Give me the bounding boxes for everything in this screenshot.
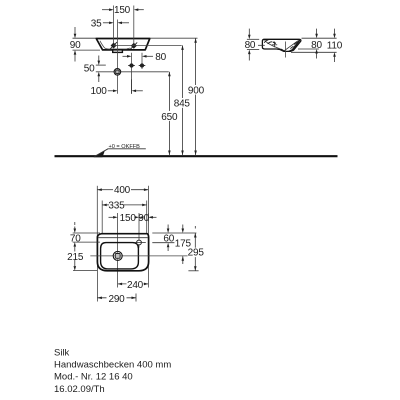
- dimension 215: [67, 247, 84, 271]
- svg-text:290: 290: [108, 294, 125, 305]
- side view: drain dark slopes: [280, 49, 286, 52]
- side view: centerline: [285, 42, 287, 58]
- svg-text:240: 240: [127, 280, 144, 291]
- dimension 90 left: [73, 27, 101, 62]
- side view: outline: [262, 39, 301, 51]
- centerline left tap hole: [113, 6, 115, 46]
- plan view: extension line right edge: [147, 186, 149, 239]
- dimension 175: [174, 225, 191, 265]
- dimension 150 top: [102, 9, 144, 11]
- dimension 80 side right: [316, 29, 318, 59]
- svg-text:+0 = OKFFB: +0 = OKFFB: [109, 144, 141, 150]
- svg-text:16.02.09/Th: 16.02.09/Th: [54, 384, 105, 395]
- dimension 80 fixing holes: [123, 55, 154, 57]
- svg-text:90: 90: [70, 40, 81, 51]
- side view: right edge thick band: [292, 40, 301, 51]
- plan view: inner bowl: [101, 243, 139, 269]
- floor level leader line: [95, 149, 146, 157]
- dimension 650: [159, 72, 178, 155]
- svg-text:335: 335: [108, 200, 125, 211]
- level line 845: [114, 44, 182, 46]
- fixing hole centerline left: [131, 53, 133, 94]
- drain line horizontal: [96, 71, 169, 73]
- dimension 60: [163, 225, 174, 252]
- plan view: tap hole: [135, 240, 146, 245]
- svg-text:60: 60: [163, 234, 174, 245]
- fixing hole right: [139, 64, 146, 67]
- svg-text:845: 845: [174, 99, 191, 110]
- left extension lines 70 215: [73, 233, 100, 271]
- dimension 35: [103, 22, 129, 24]
- svg-text:Handwaschbecken 400 mm: Handwaschbecken 400 mm: [54, 360, 171, 371]
- svg-text:Mod.- Nr. 12 16 40: Mod.- Nr. 12 16 40: [54, 372, 133, 383]
- svg-text:150: 150: [114, 5, 131, 16]
- floor level marker triangle: [94, 151, 104, 157]
- plan view: extension line left edge: [96, 186, 98, 239]
- svg-text:80: 80: [245, 40, 256, 51]
- front view: drain box: [113, 50, 123, 53]
- dimension 110 side right: [334, 29, 336, 62]
- svg-text:150: 150: [120, 213, 137, 224]
- svg-text:650: 650: [161, 112, 178, 123]
- centerline drain vertical: [117, 20, 119, 94]
- dimension 150 90 plan: [109, 213, 157, 224]
- plan view: tap hole centerline vertical: [138, 213, 140, 248]
- plan view: basin outer outline: [97, 234, 148, 271]
- drain siphon symbol: [114, 69, 121, 76]
- dimension 70: [70, 222, 81, 247]
- svg-text:70: 70: [70, 233, 81, 244]
- dimension 400: [97, 185, 148, 196]
- svg-text:50: 50: [84, 64, 95, 75]
- svg-text:80: 80: [155, 52, 166, 63]
- dimension 100: [108, 79, 143, 93]
- front view: washbasin outline: [96, 39, 150, 50]
- svg-text:110: 110: [327, 41, 343, 52]
- side right reference lines: [291, 38, 337, 52]
- plan view: extension lines 335: [101, 201, 103, 234]
- dimension 900: [187, 38, 204, 155]
- side view: rim section shading: [264, 40, 297, 49]
- svg-text:Silk: Silk: [54, 348, 70, 359]
- right extension lines 60 175 295: [152, 233, 198, 271]
- dimension 80 side left: [247, 29, 259, 61]
- front view: inner bowl line: [100, 41, 130, 49]
- dimension 290: [97, 294, 136, 306]
- svg-text:35: 35: [91, 19, 102, 30]
- side view: inner bowl lines: [265, 40, 298, 50]
- tap hole front right: [130, 42, 137, 49]
- svg-text:90: 90: [138, 213, 149, 224]
- plan view: drain: [113, 251, 122, 260]
- svg-text:80: 80: [311, 40, 322, 51]
- svg-text:295: 295: [188, 248, 205, 259]
- svg-text:215: 215: [67, 252, 84, 263]
- level line 900 top: [150, 37, 198, 39]
- dimension 50: [98, 56, 100, 83]
- wall fixing holes line: [96, 64, 106, 66]
- fixing hole left: [128, 64, 135, 67]
- ground line: [55, 155, 338, 157]
- fixing hole centerline right: [141, 53, 143, 69]
- dimension 335: [102, 200, 147, 211]
- plan view: drain centerline vertical: [117, 213, 119, 288]
- centerline right tap hole: [133, 6, 135, 46]
- dimension 845: [174, 45, 191, 155]
- side view: fixing hole cross: [258, 42, 277, 48]
- tap hole front left: [110, 42, 117, 49]
- plan view: drain horizontal centerline: [90, 255, 190, 257]
- plan view: back ledge line: [98, 237, 148, 239]
- dimension 295: [188, 226, 205, 271]
- svg-text:100: 100: [91, 86, 108, 97]
- svg-text:900: 900: [188, 86, 205, 97]
- svg-text:400: 400: [114, 185, 131, 196]
- dimension 240: [118, 280, 149, 291]
